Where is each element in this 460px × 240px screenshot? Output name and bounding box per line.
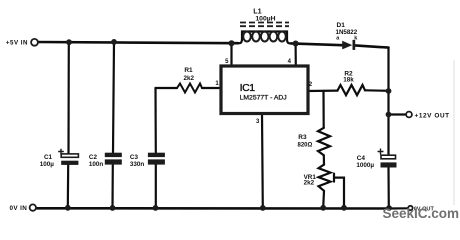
svg-text:330n: 330n (130, 161, 145, 168)
svg-text:18k: 18k (343, 76, 354, 83)
svg-text:100n: 100n (89, 161, 104, 168)
svg-text:IC1: IC1 (240, 82, 256, 94)
svg-text:SeekIC.com: SeekIC.com (383, 206, 460, 221)
svg-text:k: k (354, 35, 358, 41)
svg-text:C4: C4 (357, 155, 366, 162)
svg-text:D1: D1 (337, 22, 346, 29)
svg-text:0V IN: 0V IN (9, 205, 27, 212)
svg-text:820Ω: 820Ω (298, 143, 313, 149)
svg-text:R3: R3 (298, 134, 307, 141)
svg-text:5: 5 (225, 59, 229, 65)
svg-text:1: 1 (215, 81, 219, 87)
svg-text:L1: L1 (253, 7, 261, 16)
svg-text:4: 4 (288, 59, 292, 65)
svg-text:3: 3 (256, 119, 260, 125)
svg-text:1000µ: 1000µ (356, 162, 374, 169)
svg-text:2: 2 (309, 82, 313, 88)
svg-text:R1: R1 (184, 67, 193, 74)
svg-text:LM2577T - ADJ: LM2577T - ADJ (240, 94, 287, 101)
svg-text:100µH: 100µH (255, 15, 275, 22)
svg-text:100µ: 100µ (40, 161, 55, 168)
svg-text:+12V OUT: +12V OUT (415, 112, 450, 119)
svg-text:C1: C1 (44, 154, 53, 161)
svg-text:2k2: 2k2 (304, 180, 315, 187)
svg-text:2k2: 2k2 (184, 75, 195, 82)
svg-text:a: a (336, 36, 340, 42)
svg-text:+5V IN: +5V IN (6, 40, 28, 47)
